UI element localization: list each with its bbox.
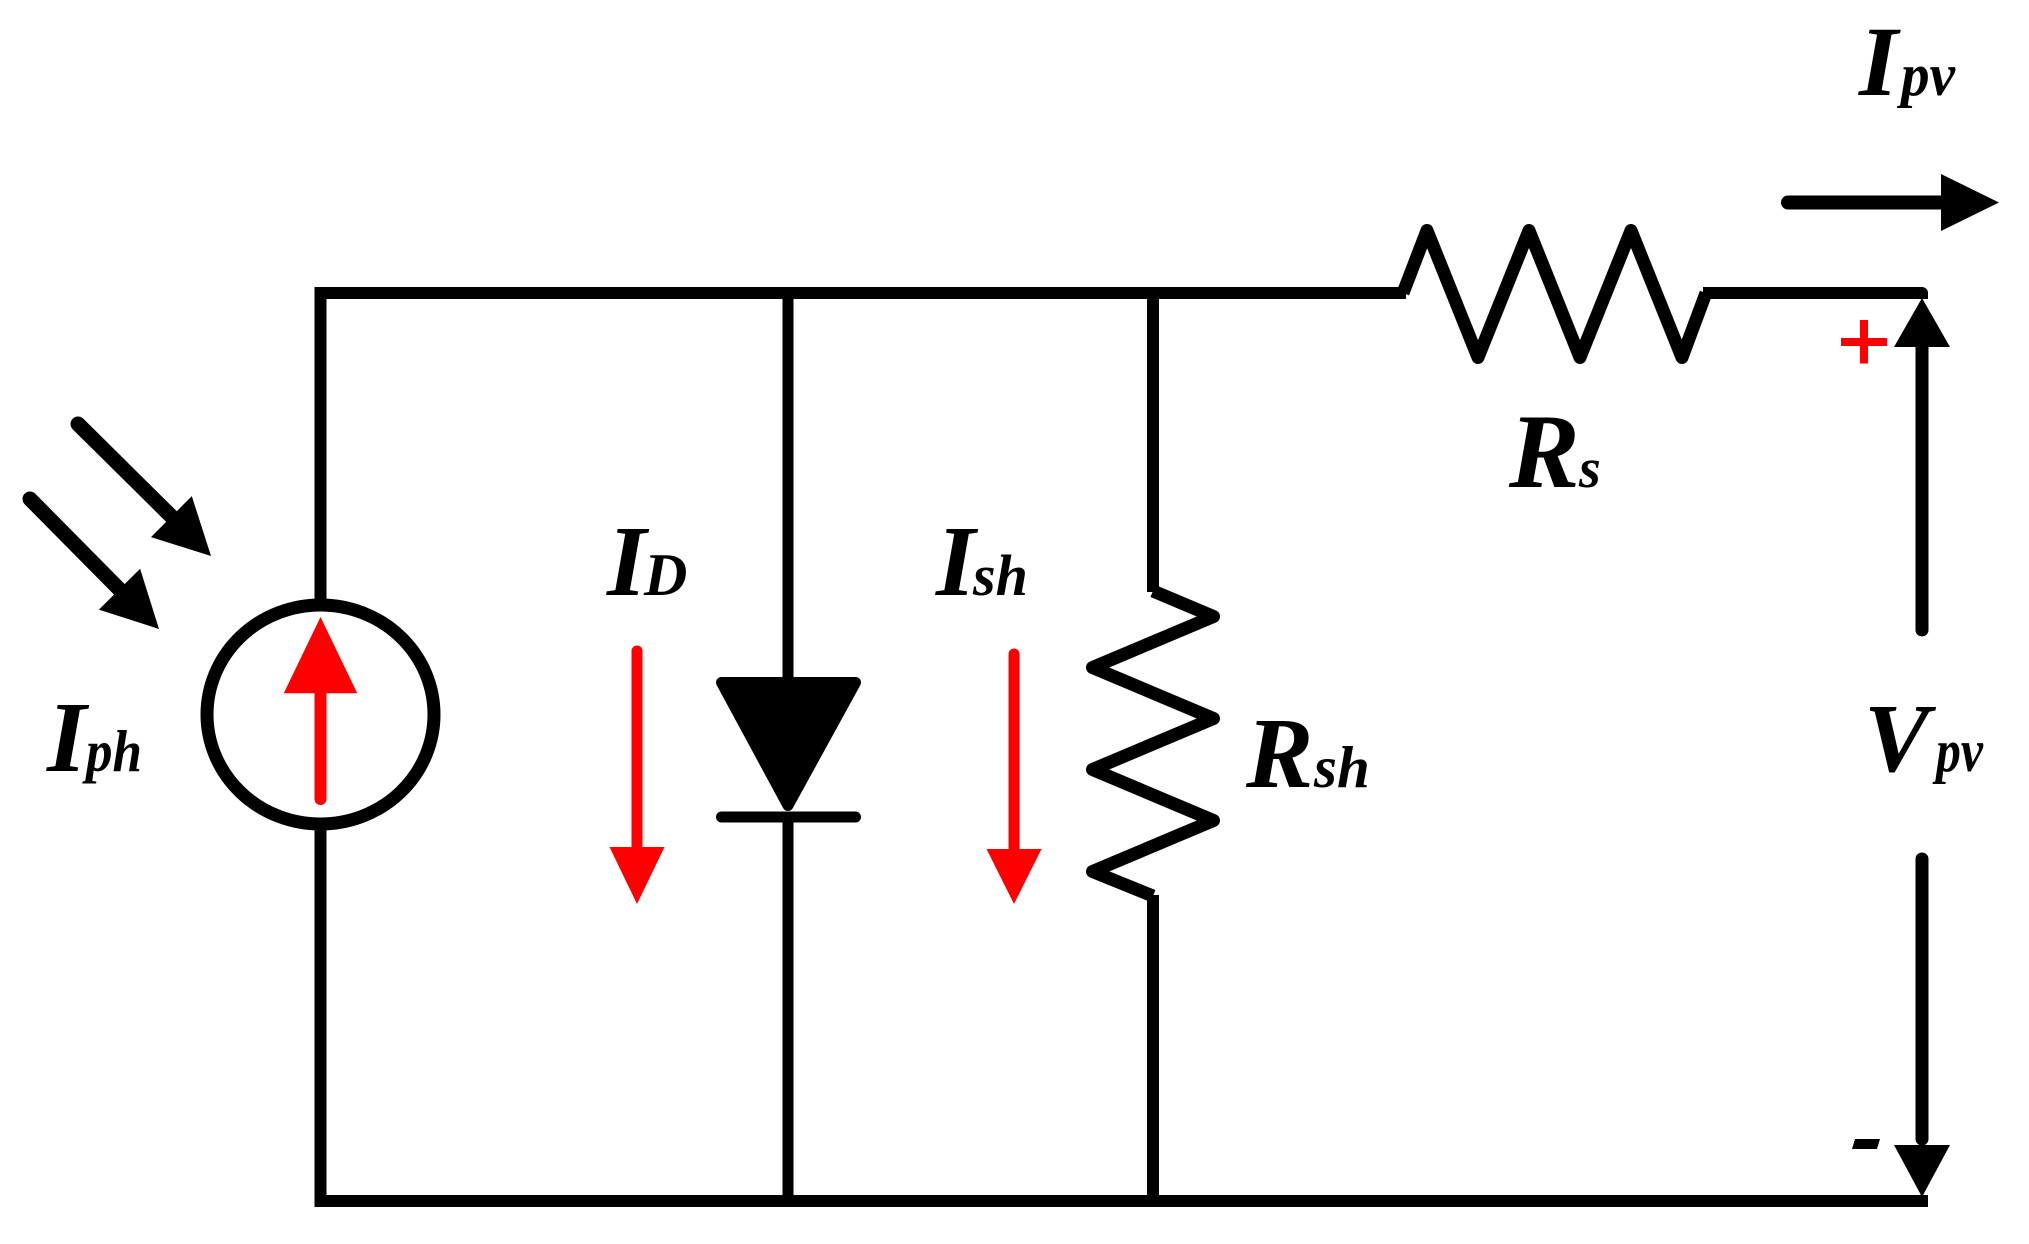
- wire: Rs to right corner: [1703, 293, 1922, 299]
- label ID: [606, 505, 687, 617]
- Vpv arrow down head: [1894, 1145, 1950, 1197]
- label Rs: [1508, 393, 1601, 510]
- label Ish: [935, 505, 1028, 617]
- current arrow Ish (red): [987, 654, 1042, 904]
- svg-text:pv: pv: [1896, 42, 1956, 108]
- Vpv arrow lower shaft: [1916, 859, 1929, 1139]
- plus sign (red): [1841, 320, 1887, 364]
- diode D triangle: [722, 683, 856, 806]
- Vpv arrow up head: [1894, 298, 1950, 347]
- minus sign: [1852, 1139, 1880, 1149]
- resistor Rs zigzag: [1403, 231, 1706, 358]
- label Vpv: [1864, 685, 1984, 793]
- label Iph: [46, 681, 142, 793]
- light arrow 1 (photon arrow upper): [78, 424, 211, 556]
- light arrow 2 (photon arrow lower): [30, 499, 159, 629]
- wire: diode branch upper: [783, 293, 794, 680]
- diode cathode bar: [722, 812, 856, 823]
- svg-text:ph: ph: [82, 718, 142, 784]
- resistor Rsh zigzag: [1093, 591, 1214, 896]
- svg-text:sh: sh: [972, 543, 1028, 608]
- svg-text:V: V: [1864, 685, 1937, 793]
- svg-text:I: I: [1858, 6, 1901, 117]
- current arrow ID (red): [610, 651, 665, 904]
- label Ipv: [1858, 6, 1956, 117]
- svg-text:sh: sh: [1313, 734, 1370, 800]
- wire: diode branch lower: [783, 816, 794, 1201]
- svg-text:D: D: [643, 542, 687, 608]
- svg-text:R: R: [1508, 393, 1580, 510]
- Vpv arrow upper shaft: [1916, 347, 1929, 630]
- current source Iph circle: [207, 605, 434, 824]
- Ipv output arrow: [1788, 174, 1999, 231]
- label Rsh: [1245, 697, 1370, 809]
- svg-text:I: I: [46, 681, 90, 793]
- svg-text:s: s: [1578, 438, 1601, 500]
- wire: left branch top + top wire to Rs: [321, 293, 1407, 600]
- svg-text:pv: pv: [1932, 718, 1984, 784]
- wire: left branch bottom + bottom wire: [321, 829, 1929, 1201]
- current source red arrow: [284, 617, 358, 799]
- svg-text:R: R: [1245, 697, 1313, 809]
- wire: Rsh branch upper: [1147, 293, 1159, 592]
- wire: Rsh branch lower: [1147, 895, 1159, 1201]
